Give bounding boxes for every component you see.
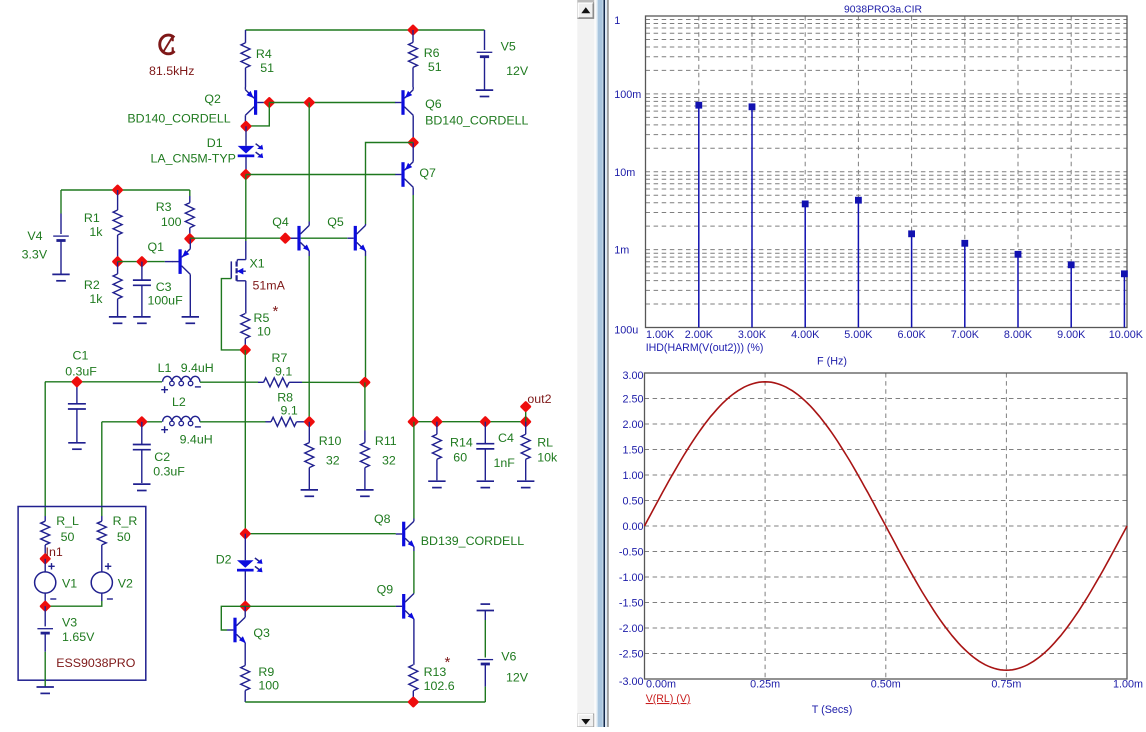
svg-text:6.00K: 6.00K [897,329,926,341]
battery V5 [484,30,486,50]
ground [428,480,445,482]
svg-text:-0.50: -0.50 [619,547,644,559]
node junction [136,256,148,268]
svg-text:V(RL) (V): V(RL) (V) [646,693,691,705]
svg-text:R9: R9 [258,665,274,679]
svg-text:1m: 1m [614,245,629,257]
wire Q5 emitter column [365,256,367,382]
svg-text:R4: R4 [256,47,272,61]
svg-text:0.25m: 0.25m [750,679,780,691]
svg-text:D2: D2 [216,553,232,567]
source V2 [91,572,112,593]
subcircuit box ESS9038PRO [18,507,146,681]
capacitor C1 [76,382,78,404]
svg-text:Q8: Q8 [374,512,391,526]
transistor Q4 [297,226,300,251]
svg-text:R3: R3 [156,200,172,214]
svg-text:1: 1 [614,15,620,27]
svg-text:T (Secs): T (Secs) [812,704,853,716]
battery V3 [44,606,46,626]
svg-text:out2: out2 [527,392,551,406]
source V1 [44,559,46,572]
svg-text:9.1: 9.1 [275,365,292,379]
svg-text:32: 32 [326,454,340,468]
capacitor C2 [141,422,143,445]
diode D2 [244,534,246,561]
transistor Q7 [401,162,404,187]
battery V6 [484,611,486,621]
wire D1-X1 column [245,175,247,242]
sine trace V(RL) [645,382,1128,670]
svg-text:BD140_CORDELL: BD140_CORDELL [425,114,528,128]
resistor R1 [117,190,119,210]
node junction [112,184,124,196]
wire R_R column [101,422,103,516]
resistor R9 [244,648,246,666]
node junction [407,24,419,36]
svg-text:Q3: Q3 [253,626,270,640]
svg-text:L1: L1 [158,361,172,375]
svg-text:ESS9038PRO: ESS9038PRO [56,656,136,670]
node junction [407,136,419,148]
svg-text:9.4uH: 9.4uH [181,361,214,375]
transistor Q6 [401,90,404,115]
resistor R8 [266,421,272,423]
resistor R7 [258,381,264,383]
svg-text:D1: D1 [207,136,223,150]
svg-text:9038PRO3a.CIR: 9038PRO3a.CIR [844,4,922,15]
chart frame [646,16,1128,328]
resistor RL [525,422,527,435]
svg-text:2.00: 2.00 [622,419,643,431]
svg-text:R1: R1 [84,211,100,225]
resistor R10 [308,422,310,443]
svg-text:R5: R5 [254,311,270,325]
wire Q4 base rail [190,237,285,239]
node out2 [525,407,527,422]
wire [44,652,46,687]
svg-text:0.50: 0.50 [622,496,643,508]
inductor L2 [163,416,200,422]
resistor R4 [245,30,247,43]
svg-text:Q1: Q1 [148,240,165,254]
wire output rail [413,421,526,423]
svg-text:0.00: 0.00 [622,521,643,533]
ground [517,480,534,482]
wire Q3 base loop [221,606,245,630]
svg-text:60: 60 [453,451,467,465]
svg-text:81.5kHz: 81.5kHz [149,64,194,78]
svg-text:100uF: 100uF [148,294,184,308]
svg-text:C2: C2 [154,450,170,464]
svg-text:2.00K: 2.00K [685,329,714,341]
svg-text:9.00K: 9.00K [1057,329,1086,341]
svg-text:1.00m: 1.00m [1113,679,1143,691]
wire L1-R7 [200,381,258,383]
svg-text:51: 51 [428,60,442,74]
ground [356,489,373,491]
svg-text:V2: V2 [118,577,133,591]
svg-text:50: 50 [117,530,131,544]
wire R7-R11 [302,381,365,383]
svg-text:Q9: Q9 [377,583,394,597]
wire L2-R8 [200,421,266,423]
wire base rail Q2-Q6 [269,102,395,104]
svg-text:Q5: Q5 [327,215,344,229]
svg-text:1k: 1k [89,292,103,306]
resistor R3 [189,190,191,196]
wire Q8e-Q9c [413,551,415,594]
node junction [39,600,51,612]
svg-text:0.3uF: 0.3uF [65,365,97,379]
svg-text:3.00: 3.00 [622,370,643,382]
svg-text:1nF: 1nF [494,456,516,470]
svg-text:12V: 12V [506,671,529,685]
node junction [136,416,148,428]
resistor R13 [409,665,418,691]
node junction [239,344,251,356]
node junction [240,120,252,132]
chart grid [645,373,1128,679]
wire [246,103,269,126]
svg-text:-2.00: -2.00 [619,623,644,635]
svg-text:50: 50 [61,530,75,544]
resistor R6 [412,30,414,42]
transistor Q8 [402,522,405,547]
wire Q7 emitter column [412,195,414,422]
harmonic stems [699,105,1125,327]
transistor Q9 [402,594,405,619]
ground [133,316,150,318]
wire X1 gate [221,279,245,350]
node junction [112,256,124,268]
svg-text:0.00m: 0.00m [646,679,676,691]
svg-text:RL: RL [537,436,553,450]
svg-text:10k: 10k [537,451,558,465]
inductor L1 [161,381,163,383]
svg-text:10.00K: 10.00K [1109,329,1144,341]
svg-text:R11: R11 [375,434,397,448]
svg-text:9.1: 9.1 [281,404,298,418]
svg-text:4.00K: 4.00K [791,329,820,341]
resistor R5 [241,314,250,339]
resistor R_R [101,516,103,521]
svg-text:R_L: R_L [56,514,79,528]
svg-text:3.3V: 3.3V [22,247,48,261]
svg-text:5.00K: 5.00K [844,329,873,341]
node junction [407,696,419,708]
svg-text:C3: C3 [156,280,172,294]
svg-text:R6: R6 [424,46,440,60]
svg-text:32: 32 [382,454,396,468]
wire [264,102,270,104]
wire Q3 collector [244,606,246,613]
node junction [263,96,275,108]
svg-text:*: * [273,303,279,320]
wire V4 top rail [61,189,190,191]
splitter bar [594,0,596,727]
svg-text:Q2: Q2 [204,92,221,106]
svg-text:L2: L2 [172,395,186,409]
svg-text:BD139_CORDELL: BD139_CORDELL [421,534,524,548]
ground [301,489,318,491]
svg-text:-1.50: -1.50 [619,598,644,610]
node junction [520,416,532,428]
svg-text:0.50m: 0.50m [871,679,901,691]
svg-text:1.50: 1.50 [622,445,643,457]
svg-text:100: 100 [161,215,182,229]
wire Q8 base [245,533,395,535]
svg-text:C4: C4 [498,431,514,445]
wire Q9 base [245,605,395,607]
svg-text:Q4: Q4 [272,215,289,229]
resistor R11 [364,382,366,430]
svg-text:0.75m: 0.75m [991,679,1021,691]
svg-text:R2: R2 [84,278,100,292]
node junction [184,233,196,245]
ground [133,483,150,485]
wire V2 return [45,601,102,606]
wire Q4-Q5 base [301,237,348,239]
ground [52,273,69,275]
ground [476,89,493,91]
wire Q4 emitter column [308,256,310,422]
svg-text:R7: R7 [272,351,288,365]
svg-text:R_R: R_R [113,514,138,528]
svg-text:LA_CN5M-TYP: LA_CN5M-TYP [151,152,236,166]
svg-text:10m: 10m [614,167,635,179]
wire bottom rail [245,701,485,703]
node junction [303,416,315,428]
svg-text:In1: In1 [46,545,63,559]
node junction [239,600,251,612]
capacitor C4 [484,422,486,444]
wire Q5 collector [366,143,414,225]
node junction [303,96,315,108]
svg-text:-1.00: -1.00 [619,572,644,584]
svg-text:8.00K: 8.00K [1004,329,1033,341]
svg-text:2.50: 2.50 [622,394,643,406]
wire Q4 collector column [308,103,310,222]
transistor Q5 [354,226,357,251]
svg-text:1.65V: 1.65V [62,630,95,644]
svg-text:1k: 1k [89,225,103,239]
scrollbar [577,0,594,727]
wire Q7 base rail [246,174,395,176]
node junction [240,168,252,180]
svg-text:10: 10 [257,325,271,339]
node junction [431,416,443,428]
ground [109,316,126,318]
svg-text:BD140_CORDELL: BD140_CORDELL [127,112,230,126]
node junction [407,416,419,428]
resistor R14 [436,422,438,435]
svg-text:102.6: 102.6 [424,679,455,693]
svg-text:100m: 100m [614,89,641,101]
node junction [479,416,491,428]
svg-text:-3.00: -3.00 [619,676,644,688]
wire VAS column [244,350,246,534]
wire Q1 base [118,261,165,263]
node junction [239,528,251,540]
svg-text:V5: V5 [501,40,516,54]
battery V4 [60,190,62,214]
svg-text:12V: 12V [506,64,529,78]
svg-text:-2.50: -2.50 [619,649,644,661]
wire [246,29,485,31]
resistor R2 [117,262,119,274]
svg-text:R10: R10 [319,434,342,448]
chart grid [646,16,1128,328]
node junction [279,232,291,244]
svg-text:51: 51 [260,61,274,75]
Micro-Cap logo [160,35,175,54]
svg-text:51mA: 51mA [253,279,286,293]
ground [182,316,199,318]
svg-text:*: * [445,654,451,671]
svg-text:9.4uH: 9.4uH [180,433,213,447]
ground [37,686,54,688]
svg-text:F (Hz): F (Hz) [817,356,847,368]
transistor Q1 [179,249,182,274]
svg-text:V3: V3 [62,616,77,630]
svg-text:Q6: Q6 [425,97,442,111]
svg-text:7.00K: 7.00K [951,329,980,341]
svg-text:100u: 100u [614,324,638,336]
svg-text:100: 100 [258,679,279,693]
mosfet X1 [245,256,247,260]
svg-text:IHD(HARM(V(out2))) (%): IHD(HARM(V(out2))) (%) [646,342,764,354]
wire R_L column [44,382,46,516]
node junction [71,376,83,388]
svg-text:V6: V6 [501,650,516,664]
svg-text:V4: V4 [27,229,42,243]
resistor R_L [44,516,46,521]
svg-text:C1: C1 [73,349,89,363]
wire C1 rail [45,381,162,383]
wire L2 stub [102,421,162,423]
chart frame [645,373,1128,679]
svg-text:3.00K: 3.00K [738,329,767,341]
wire Q8 collector column [413,422,415,519]
svg-text:R14: R14 [450,436,473,450]
ground [477,480,494,482]
svg-text:1.00: 1.00 [622,470,643,482]
svg-text:0.3uF: 0.3uF [153,465,185,479]
svg-text:R13: R13 [424,665,447,679]
inverted ground V6 [481,603,491,605]
svg-text:R8: R8 [277,391,293,405]
svg-text:Q7: Q7 [419,166,436,180]
diode D1 [245,126,247,146]
ground [68,442,85,444]
wire Q9 emitter [413,622,415,665]
transistor Q3 [233,618,236,643]
capacitor C3 [141,262,143,281]
svg-text:V1: V1 [62,577,77,591]
transistor Q2 [254,90,257,115]
svg-text:1.00K: 1.00K [646,329,675,341]
node junction [359,376,371,388]
svg-text:X1: X1 [250,257,265,271]
node In1 [39,553,51,565]
